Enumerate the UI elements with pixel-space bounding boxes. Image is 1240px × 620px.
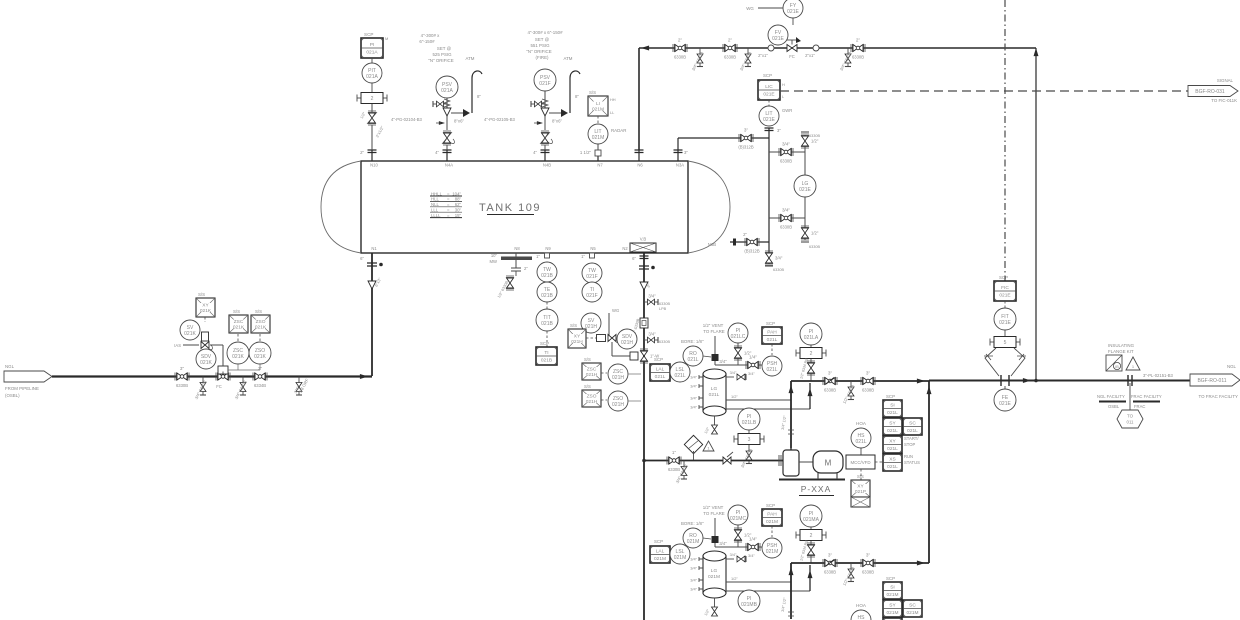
svg-text:6330B: 6330B <box>780 225 792 230</box>
vapor drop to N6 <box>638 48 640 150</box>
svg-text:3: 3 <box>748 437 751 443</box>
svg-text:021E: 021E <box>787 9 799 15</box>
svg-text:021K: 021K <box>232 354 244 360</box>
switch box XY-021P <box>851 480 870 497</box>
discharge riser1 A <box>790 381 792 448</box>
svg-text:021E: 021E <box>799 187 811 193</box>
instrument SDV-021H <box>617 329 637 349</box>
panel box SC-021L <box>903 418 922 435</box>
block valve under PSV-A <box>442 131 452 145</box>
svg-text:(B)312B: (B)312B <box>738 145 754 150</box>
svg-text:"N" ORIFICE: "N" ORIFICE <box>428 58 453 63</box>
svg-text:011: 011 <box>1127 420 1135 425</box>
instrument LSL-021M <box>670 544 690 564</box>
switch box XY-021H <box>568 329 586 348</box>
svg-text:NGL: NGL <box>5 364 15 369</box>
svg-text:FC: FC <box>789 54 795 59</box>
panel box XY-021L <box>883 436 902 453</box>
svg-text:N9: N9 <box>545 246 551 251</box>
svg-text:SIS: SIS <box>857 474 864 479</box>
svg-text:FLANGE KIT: FLANGE KIT <box>1108 349 1134 354</box>
svg-text:3/4": 3/4" <box>690 375 697 380</box>
svg-text:021M: 021M <box>766 549 779 555</box>
svg-text:N4A: N4A <box>445 163 453 168</box>
tank level table <box>430 191 462 218</box>
motor P-XXA <box>813 451 843 473</box>
svg-text:SI: SI <box>890 585 895 591</box>
svg-text:6330B: 6330B <box>668 467 680 472</box>
svg-text:GWR: GWR <box>782 108 792 113</box>
svg-text:3"-PL-02151-B3: 3"-PL-02151-B3 <box>1143 373 1174 378</box>
PSV-A vent to ATM <box>466 56 482 113</box>
valve lower tap <box>779 208 793 230</box>
svg-text:ZSC: ZSC <box>234 319 244 325</box>
pilot valve SDV-021K <box>201 342 209 349</box>
instrument LIT-021E <box>759 106 779 126</box>
svg-text:NGL FACILITY: NGL FACILITY <box>1097 394 1125 399</box>
svg-text:PAH: PAH <box>767 330 777 336</box>
svg-text:021E: 021E <box>999 401 1011 407</box>
svg-text:LAL: LAL <box>656 549 665 555</box>
svg-text:6338B: 6338B <box>824 388 836 393</box>
svg-text:8"x6": 8"x6" <box>552 119 562 124</box>
svg-text:TO FLARE: TO FLARE <box>703 511 724 516</box>
pump P-XXA casing <box>779 448 799 476</box>
instrument HS-021L <box>851 428 871 448</box>
svg-text:NLL: NLL <box>431 202 439 207</box>
FIT manifold <box>1004 330 1006 336</box>
svg-text:8": 8" <box>575 94 579 99</box>
svg-text:(FIRE): (FIRE) <box>536 55 549 60</box>
PI-A block valve A <box>810 359 812 381</box>
instrument PI-021LA <box>800 323 822 345</box>
instrument PI-021LC <box>728 323 748 343</box>
panel box PAH-021M <box>762 509 782 526</box>
svg-text:021E: 021E <box>763 117 775 123</box>
instrument FIT-021E <box>994 308 1016 330</box>
svg-text:021E: 021E <box>999 292 1010 298</box>
tank left head <box>321 161 361 253</box>
svg-text:021A: 021A <box>366 74 378 80</box>
WG supply line <box>608 313 610 338</box>
svg-text:525 PSIG: 525 PSIG <box>432 52 452 57</box>
instrument TIT-021B <box>536 309 558 331</box>
svg-text:N4B: N4B <box>543 163 551 168</box>
svg-text:3": 3" <box>828 371 833 376</box>
svg-text:N6: N6 <box>637 163 643 168</box>
svg-text:6": 6" <box>632 256 636 261</box>
LG nozzle left3 A <box>699 396 703 400</box>
instrument SDV-021K <box>196 349 216 369</box>
riser check A <box>788 430 794 434</box>
svg-text:3/4": 3/4" <box>648 294 656 299</box>
solenoid body SDV-021K <box>202 332 209 341</box>
line to N10 flange <box>371 125 373 150</box>
svg-text:XY: XY <box>574 333 581 339</box>
pilot valve SDV-021H <box>608 335 616 342</box>
svg-text:STATUS: STATUS <box>904 460 920 465</box>
svg-text:WG: WG <box>612 308 619 313</box>
manway N8 <box>490 253 532 299</box>
outlet flag BGF-RO-011 <box>1190 374 1240 386</box>
svg-text:SCP: SCP <box>540 341 549 346</box>
svg-text:3/4": 3/4" <box>648 332 656 337</box>
svg-text:HH: HH <box>610 97 616 102</box>
thermowell stub N9 <box>545 253 550 258</box>
vapor line arrow <box>641 46 649 51</box>
svg-text:3/4": 3/4" <box>782 142 790 147</box>
svg-text:6338B: 6338B <box>824 570 836 575</box>
instrument HS-021M <box>851 610 871 620</box>
svg-text:021L: 021L <box>855 439 866 445</box>
svg-text:H: H <box>782 82 785 87</box>
svg-text:021B: 021B <box>541 273 553 279</box>
instrument TI-021F <box>582 282 602 302</box>
svg-text:551 PSIG: 551 PSIG <box>530 43 550 48</box>
wire XY-021H <box>586 337 596 339</box>
svg-text:10": 10" <box>491 253 498 258</box>
svg-text:(B)312B: (B)312B <box>744 249 760 254</box>
main discharge line <box>929 380 1190 382</box>
svg-text:IAS: IAS <box>174 343 181 348</box>
svg-text:021MA: 021MA <box>803 517 820 523</box>
inlet drain 3 <box>293 377 310 396</box>
svg-text:021A: 021A <box>441 88 453 94</box>
svg-text:021L: 021L <box>887 428 898 434</box>
tank right head <box>688 161 730 253</box>
svg-text:6": 6" <box>360 256 364 261</box>
wire PAH to PSH A <box>771 344 773 355</box>
svg-text:021H: 021H <box>621 340 633 346</box>
controller box FIC-021E <box>994 281 1016 301</box>
orifice block 2 (N10) <box>357 93 387 104</box>
N2 side drain LPB <box>644 294 658 306</box>
svg-text:M: M <box>385 36 388 41</box>
vapor riser corner arrow <box>1034 48 1039 56</box>
svg-text:3/4": 3/4" <box>690 578 697 583</box>
wire MCC to stack A <box>875 461 882 463</box>
instrument SV-021K <box>180 320 200 340</box>
svg-text:6330B: 6330B <box>659 302 670 306</box>
svg-text:3/4": 3/4" <box>782 208 790 213</box>
LG upper vent valve <box>801 134 819 148</box>
svg-text:021B: 021B <box>541 357 552 363</box>
orifice block PI-A B <box>810 527 812 529</box>
svg-text:021F: 021F <box>586 274 597 280</box>
panel box SI-021L <box>883 400 902 417</box>
flame arrestor B <box>712 536 719 543</box>
svg-text:WG: WG <box>746 6 754 11</box>
baseplate A <box>779 479 845 481</box>
vent valve B <box>746 537 760 552</box>
instrument FY-021E <box>783 0 803 18</box>
svg-text:LG: LG <box>711 568 718 574</box>
svg-text:021M: 021M <box>907 610 919 616</box>
svg-text:TO: TO <box>1127 414 1134 419</box>
discharge header A <box>791 380 929 382</box>
svg-text:N3B: N3B <box>708 242 716 247</box>
svg-text:021E: 021E <box>999 320 1011 326</box>
PSV-A test stub <box>433 101 447 107</box>
alarm box LAL-021L <box>650 364 670 381</box>
svg-text:4"-PG-02105-B3: 4"-PG-02105-B3 <box>484 117 515 122</box>
svg-text:2: 2 <box>810 533 813 539</box>
svg-text:OSBL: OSBL <box>1108 404 1120 409</box>
svg-text:MCC/VFD: MCC/VFD <box>850 460 870 465</box>
S/S box ZSC-021H <box>582 363 601 380</box>
svg-text:3/4": 3/4" <box>690 384 697 389</box>
wire ZSO-021H <box>601 399 607 401</box>
svg-text:021M: 021M <box>592 107 604 113</box>
LIT flange 3in <box>765 128 774 131</box>
svg-text:021L: 021L <box>674 373 685 379</box>
valve SDV-021K body <box>216 373 230 381</box>
signal trunk dash-dot <box>1004 0 1006 281</box>
instrument PI-021MA <box>800 505 822 527</box>
svg-text:XY: XY <box>857 483 864 489</box>
vortex breaker V.B <box>630 237 656 253</box>
discharge trunk x=929 <box>928 381 930 563</box>
vent valve A <box>746 355 760 370</box>
svg-text:N5: N5 <box>590 246 596 251</box>
svg-text:(OSBL): (OSBL) <box>5 393 20 398</box>
switch box XY-021K <box>196 298 215 317</box>
svg-text:4"-PG-02104-B3: 4"-PG-02104-B3 <box>391 117 422 122</box>
insulating kit box <box>1106 355 1122 371</box>
svg-text:S/S: S/S <box>589 90 596 95</box>
wire PAH to PSH B <box>771 526 773 537</box>
svg-text:MW: MW <box>490 259 497 264</box>
svg-text:021M: 021M <box>674 555 687 561</box>
signal LIC to flag <box>780 90 1188 92</box>
svg-text:8"x6": 8"x6" <box>454 119 464 124</box>
instrument LIT-021M <box>588 124 608 144</box>
N1 spectacle blind <box>367 263 377 266</box>
svg-text:1/2" VENT: 1/2" VENT <box>703 323 724 328</box>
svg-text:ZSC: ZSC <box>587 366 597 372</box>
instrument TE-021B <box>537 282 557 302</box>
svg-text:ZSO: ZSO <box>256 319 266 325</box>
valve on N10 riser <box>367 111 377 125</box>
svg-text:2"x1": 2"x1" <box>758 53 768 58</box>
LG nozzle left1 B <box>699 557 703 561</box>
inlet valve 1 <box>175 366 189 388</box>
svg-text:SET @: SET @ <box>437 46 452 51</box>
svg-text:SC: SC <box>909 603 916 609</box>
block valve under PSV-F <box>540 131 550 145</box>
svg-text:LIC: LIC <box>765 84 773 90</box>
svg-text:N2: N2 <box>622 246 628 251</box>
svg-text:021M: 021M <box>887 592 899 598</box>
discharge riser2 B <box>809 565 811 591</box>
svg-text:021F: 021F <box>586 293 597 299</box>
LG lower drain valve <box>801 226 819 240</box>
svg-text:2": 2" <box>360 150 364 155</box>
svg-text:SCP: SCP <box>654 357 663 362</box>
PI-B drain A <box>740 445 754 469</box>
svg-text:4"-300# x 6"-150#: 4"-300# x 6"-150# <box>527 30 563 35</box>
panel box SC-021M <box>903 600 922 617</box>
svg-text:88": 88" <box>455 197 462 202</box>
svg-text:XY: XY <box>202 302 209 308</box>
nozzle N4B stub <box>533 150 549 161</box>
svg-text:021L: 021L <box>767 337 778 343</box>
svg-text:021M: 021M <box>766 519 778 525</box>
svg-text:RUN: RUN <box>904 454 913 459</box>
svg-text:5: 5 <box>1004 340 1007 346</box>
instrument PSV-021F <box>534 69 556 91</box>
svg-text:021L: 021L <box>655 374 666 380</box>
svg-text:XY: XY <box>889 439 896 445</box>
wire MCC to XY A <box>860 469 862 480</box>
svg-text:021K: 021K <box>233 325 245 331</box>
svg-text:021K: 021K <box>200 308 212 314</box>
svg-text:3/4": 3/4" <box>690 557 697 562</box>
flame arrestor A <box>712 354 719 361</box>
svg-text:1": 1" <box>536 254 540 259</box>
valve on N3B line <box>744 238 760 254</box>
instrument SV-021H <box>581 313 601 333</box>
panel box SY-021M <box>883 600 902 617</box>
actuator tube <box>210 344 223 346</box>
svg-text:62": 62" <box>455 202 462 207</box>
valve vapor 2 <box>723 38 737 60</box>
svg-text:HLL: HLL <box>431 197 439 202</box>
check valve A <box>823 371 837 393</box>
IAS line <box>183 344 199 346</box>
gauge column LG-021L <box>703 369 726 416</box>
svg-text:SCP: SCP <box>886 576 895 581</box>
svg-text:021H: 021H <box>571 339 583 345</box>
svg-text:1": 1" <box>672 450 677 455</box>
wire LSL B <box>662 554 670 558</box>
svg-text:021K: 021K <box>200 360 212 366</box>
svg-text:6330B: 6330B <box>659 340 670 344</box>
svg-text:BGF-RO-031: BGF-RO-031 <box>1195 89 1225 95</box>
N2 inline strainer <box>640 318 648 328</box>
switch box ZSC-021K <box>229 315 248 333</box>
instrument ZSO-021K <box>249 342 271 364</box>
svg-text:2: 2 <box>810 351 813 357</box>
svg-text:021E: 021E <box>763 91 774 97</box>
PSV-F vent to ATM <box>564 56 580 113</box>
PSV-A relief valve <box>443 98 470 130</box>
svg-text:6338B: 6338B <box>862 388 874 393</box>
svg-text:FC: FC <box>216 384 222 389</box>
valve vapor 1 <box>673 38 687 60</box>
svg-text:SCP: SCP <box>654 539 663 544</box>
svg-text:SI: SI <box>890 403 895 409</box>
svg-text:1 1/2": 1 1/2" <box>580 150 592 155</box>
nozzle N7 stub <box>580 150 601 161</box>
svg-text:6330B: 6330B <box>809 245 820 249</box>
instrument FE-021E <box>1004 386 1006 390</box>
nozzle N10 stub <box>360 150 376 161</box>
svg-text:30": 30" <box>455 208 462 213</box>
svg-text:2": 2" <box>524 266 528 271</box>
N2 stub <box>643 253 645 620</box>
svg-text:N7: N7 <box>597 163 603 168</box>
svg-text:FRAC FACILITY: FRAC FACILITY <box>1131 394 1162 399</box>
reducer 2x1 left <box>758 45 774 58</box>
svg-text:PI: PI <box>370 42 375 48</box>
wire ZSC box <box>237 334 239 342</box>
svg-text:021L: 021L <box>709 392 720 398</box>
wire RO B <box>703 538 711 539</box>
svg-text:021H: 021H <box>585 324 597 330</box>
instrument PSH-021L <box>762 356 782 376</box>
instrument LSL-021L <box>670 362 690 382</box>
valve on N3A line <box>738 128 754 150</box>
svg-text:SET @: SET @ <box>535 37 550 42</box>
wire ZSC-021H <box>601 372 607 374</box>
inlet valve 2 <box>253 366 267 388</box>
svg-text:HS: HS <box>858 615 866 620</box>
svg-text:SC: SC <box>909 421 916 427</box>
svg-text:FROM PIPELINE: FROM PIPELINE <box>5 386 39 391</box>
wire HS to MCC <box>860 448 862 455</box>
LG nozzle left4 A <box>699 405 703 409</box>
instrument PI-021MC <box>728 505 748 525</box>
N1 riser <box>371 253 373 376</box>
PI-C block valve B <box>737 525 739 547</box>
svg-text:3/4": 3/4" <box>719 359 727 364</box>
panel box SY-021L <box>883 418 902 435</box>
svg-text:1/2": 1/2" <box>731 576 738 581</box>
wire RO A <box>703 356 711 357</box>
svg-text:021LC: 021LC <box>731 334 746 340</box>
svg-text:1/4": 1/4" <box>749 355 757 360</box>
svg-text:3/4": 3/4" <box>719 541 727 546</box>
line PIT to orifice <box>371 83 373 92</box>
wire FY down <box>792 18 794 25</box>
svg-text:ATM: ATM <box>564 56 573 61</box>
svg-text:S/S: S/S <box>198 292 205 297</box>
svg-text:021K: 021K <box>254 354 266 360</box>
svg-text:021B: 021B <box>541 293 553 299</box>
vapor drain 2 <box>739 48 753 72</box>
N2 reducer <box>640 282 648 290</box>
instrument PIT-021A <box>362 63 382 83</box>
MCC/VFD box A <box>846 455 875 469</box>
instrument PI-021MB <box>738 590 760 612</box>
S/S box ZSO-021H <box>582 390 601 407</box>
nozzle N6 stub <box>635 150 644 161</box>
wire PI to PIT <box>371 58 373 63</box>
svg-text:XS: XS <box>889 457 895 463</box>
svg-text:2": 2" <box>728 38 733 43</box>
actuator tube H <box>611 342 613 356</box>
svg-text:FIC: FIC <box>1001 285 1009 291</box>
pump shaft A <box>799 461 813 463</box>
svg-text:3/4": 3/4" <box>775 256 783 261</box>
wire TIT to TI <box>546 331 548 347</box>
svg-text:021LB: 021LB <box>742 420 757 426</box>
svg-text:021B: 021B <box>541 321 553 327</box>
instrument RO-021L <box>683 346 703 366</box>
instrument TW-021F <box>582 263 602 283</box>
inlet flag NGL <box>4 371 52 382</box>
bridle riser <box>768 128 770 264</box>
svg-text:2": 2" <box>856 38 861 43</box>
svg-text:021M: 021M <box>708 574 720 580</box>
N2 spectacle blind <box>639 266 649 269</box>
line LIT-021M to N7 <box>597 144 599 150</box>
svg-text:3/4": 3/4" <box>730 370 737 375</box>
svg-text:TO FIC-011K: TO FIC-011K <box>1211 98 1237 103</box>
PI-A block valve B <box>810 541 812 563</box>
inlet arrow at riser <box>360 374 368 379</box>
